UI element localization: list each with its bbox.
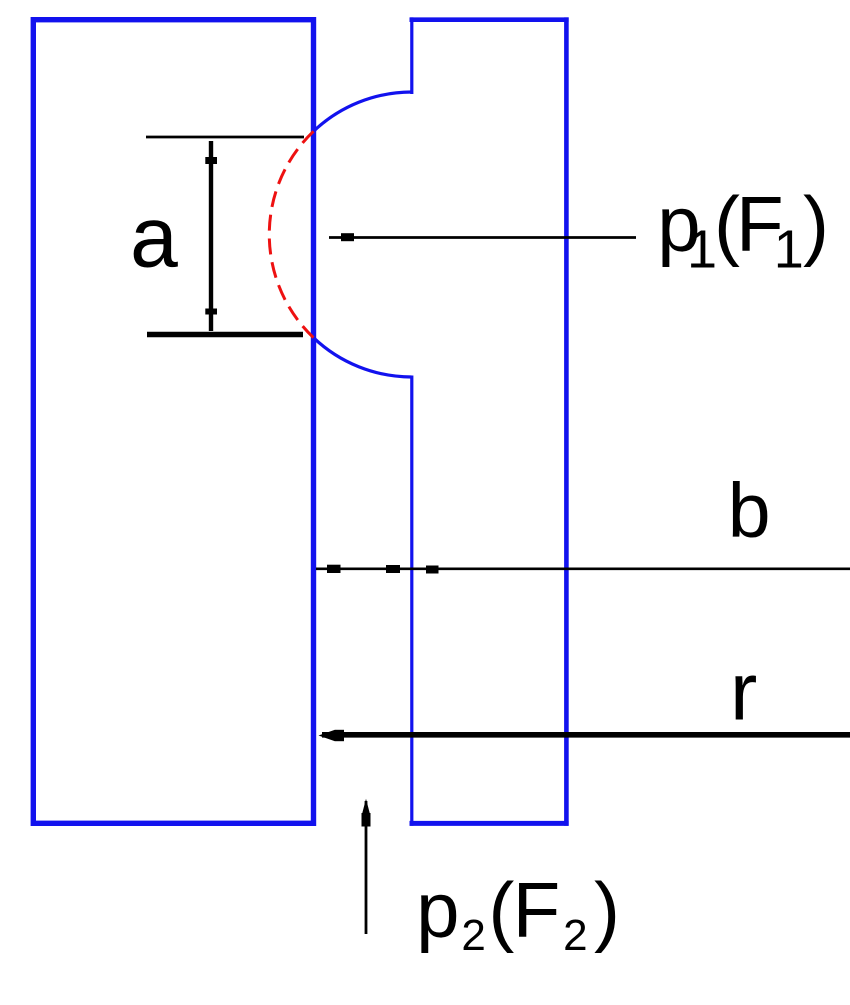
dimension a: upper arrowhead	[205, 157, 217, 164]
right body bottom edge	[410, 821, 569, 826]
right body right edge	[564, 17, 569, 825]
svg-text:p1(F1): p1(F1)	[657, 180, 829, 280]
pin contact arc (red dashed)	[269, 131, 313, 337]
dimension r leader line	[322, 732, 850, 738]
dimension a: vertical arrow line	[209, 141, 213, 331]
dimension b arrowhead 1	[327, 565, 341, 573]
dimension b arrowhead 2	[386, 565, 400, 573]
right body left edge upper segment	[410, 17, 413, 94]
arrow p2 vertical line	[365, 801, 368, 934]
svg-text:a: a	[130, 190, 178, 286]
arrow p1 leader line	[329, 236, 636, 239]
dimension a: lower arrowhead	[205, 309, 217, 315]
dimension b arrowhead 3	[426, 566, 439, 574]
svg-text:r: r	[730, 647, 757, 738]
svg-text:b: b	[728, 468, 771, 554]
arrow p1 arrowhead	[341, 233, 354, 241]
dimension r arrowhead	[319, 730, 336, 741]
right body left edge lower segment	[410, 376, 413, 826]
dimension b leader line	[316, 567, 850, 570]
dimension a: bottom extension line	[147, 332, 303, 338]
arrow p2 arrowhead	[362, 799, 369, 813]
left body (left blue rectangle)	[33, 20, 313, 824]
right body top edge	[410, 17, 569, 22]
hole arc lower blue segment	[314, 338, 412, 377]
dimension a: top extension line	[146, 136, 304, 139]
hole arc upper blue segment	[314, 92, 412, 131]
